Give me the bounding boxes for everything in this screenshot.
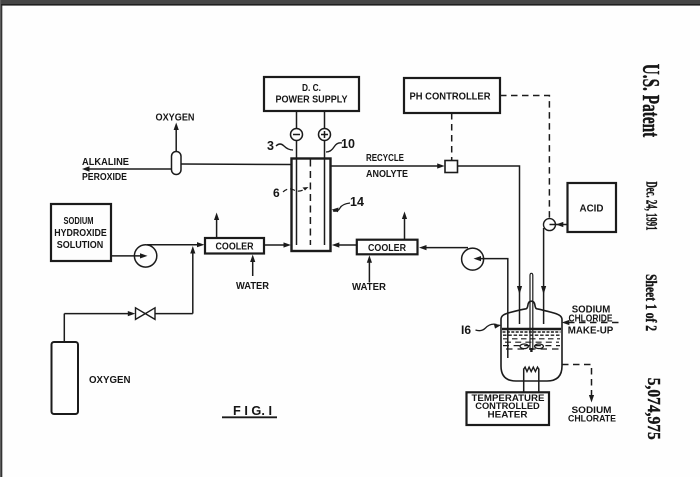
svg-text:CHLORATE: CHLORATE (568, 414, 616, 425)
wire: oxygen riser joining pump outlet (190, 246, 195, 314)
vessel 16 body (501, 301, 562, 381)
valve V1 (136, 308, 156, 320)
svg-text:F I G. I: F I G. I (233, 403, 272, 418)
svg-text:I6: I6 (461, 323, 471, 337)
label: 3 (cathode) (267, 139, 293, 153)
wire: pH signal to acid pump (dashed) (500, 96, 549, 219)
top scan border (0, 0, 700, 4)
stirrer shaft (530, 273, 533, 352)
pump P1 (134, 245, 156, 267)
wire: water 1 feed (250, 255, 255, 277)
svg-text:RECYCLE: RECYCLE (366, 153, 404, 164)
wire: cooler 1 vent (214, 213, 219, 239)
wire: acid to pump P3 (550, 222, 568, 227)
box: sodium hydroxide solution (51, 204, 111, 261)
wire: capsule to cell (181, 163, 292, 166)
wire: pump P2 outlet to cooler 2 (419, 245, 468, 250)
wire: supply positive lead (324, 111, 326, 129)
svg-text:Dec. 24, 1991: Dec. 24, 1991 (642, 182, 659, 231)
wire: cooler 2 to cell (332, 242, 357, 247)
node: gas separator capsule (172, 152, 182, 175)
box: acid (568, 183, 617, 232)
wire: acid feed into vessel (543, 228, 545, 324)
wire: valve to riser (155, 313, 193, 315)
svg-text:POWER SUPPLY: POWER SUPPLY (276, 95, 348, 106)
wire: oxygen cylinder to valve (64, 311, 135, 316)
svg-text:SOLUTION: SOLUTION (57, 240, 104, 251)
pump P2 (recycle) (462, 248, 484, 270)
wire: sodium chloride make-up (dashed) (562, 320, 620, 325)
svg-text:PEROXIDE: PEROXIDE (82, 172, 127, 183)
svg-text:U.S. Patent: U.S. Patent (637, 64, 663, 138)
wire: pH sensor drop (dashed) (451, 113, 453, 161)
liquid hatching (503, 332, 561, 349)
wire: alkaline peroxide out (82, 166, 172, 171)
label: 14 (cell wall) (332, 195, 364, 212)
svg-text:SODIUM: SODIUM (64, 216, 94, 227)
svg-text:OXYGEN: OXYGEN (156, 113, 195, 124)
wire: cylinder neck (63, 314, 65, 342)
svg-text:ALKALINE: ALKALINE (82, 157, 129, 168)
terminal: negative (291, 129, 303, 141)
svg-text:PH CONTROLLER: PH CONTROLLER (410, 92, 492, 103)
box: cooler 2 (357, 240, 418, 255)
svg-text:ANOLYTE: ANOLYTE (366, 169, 408, 180)
label: 16 (vessel) (461, 323, 501, 337)
oxygen cylinder (52, 342, 79, 414)
svg-text:14: 14 (350, 195, 364, 209)
svg-text:D. C.: D. C. (302, 83, 321, 94)
electrode: cathode plate (296, 141, 298, 246)
wire: cooler 2 vent (402, 212, 407, 240)
box: temperature controlled heater (467, 392, 550, 425)
svg-text:COOLER: COOLER (216, 242, 255, 253)
svg-text:HYDROXIDE: HYDROXIDE (54, 228, 107, 239)
arrow: anolyte into vessel (517, 286, 522, 295)
wire: solution to pump P1 (111, 253, 148, 258)
svg-text:10: 10 (341, 137, 355, 151)
stirrer propeller (520, 344, 543, 349)
membrane 6 (dashed) (309, 160, 311, 246)
wire: vessel draw-off to pump P2 (474, 256, 508, 358)
svg-text:3: 3 (267, 139, 274, 153)
liquid surface (502, 328, 561, 331)
wire: sensor to vessel downcomer (458, 166, 520, 324)
svg-text:WATER: WATER (352, 282, 387, 293)
node: pH sensor cell (445, 161, 458, 173)
box: PH controller (404, 78, 500, 113)
wire: supply negative lead (296, 111, 298, 129)
arrow: acid into vessel (541, 286, 546, 295)
pump P3 (acid metering) (544, 219, 556, 231)
svg-text:ACID: ACID (580, 204, 604, 215)
heater duct (524, 369, 539, 393)
wire: recycle anolyte from cell (331, 163, 445, 168)
heater element (zigzag) (524, 367, 539, 371)
electrode: anode plate (324, 141, 326, 246)
svg-text:5,074,975: 5,074,975 (644, 378, 664, 440)
svg-text:HEATER: HEATER (488, 409, 528, 419)
electrolytic cell body (292, 159, 331, 252)
label: 6 (membrane) (273, 186, 309, 200)
box: cooler 1 (205, 238, 264, 254)
svg-text:6: 6 (273, 186, 280, 200)
label: FIG. 1 (222, 403, 277, 418)
svg-text:MAKE-UP: MAKE-UP (568, 326, 614, 337)
wire: pump P1 outlet to cooler 1 (147, 242, 205, 247)
wire: oxygen vent from capsule (174, 123, 179, 152)
svg-text:WATER: WATER (236, 281, 270, 292)
wire: product take-off (dashed) (562, 365, 594, 403)
box: D.C. power supply (264, 77, 359, 111)
svg-text:COOLER: COOLER (368, 243, 407, 254)
left scan border (0, 0, 1, 477)
wire: cooler 1 to cell (264, 242, 291, 247)
svg-text:OXYGEN: OXYGEN (89, 375, 131, 386)
wire: water 2 feed (367, 255, 372, 282)
svg-text:Sheet 1 of 2: Sheet 1 of 2 (642, 274, 659, 331)
terminal: positive (319, 129, 331, 141)
label: 10 (anode) (326, 137, 355, 152)
svg-text:CHLORIDE: CHLORIDE (569, 314, 613, 325)
